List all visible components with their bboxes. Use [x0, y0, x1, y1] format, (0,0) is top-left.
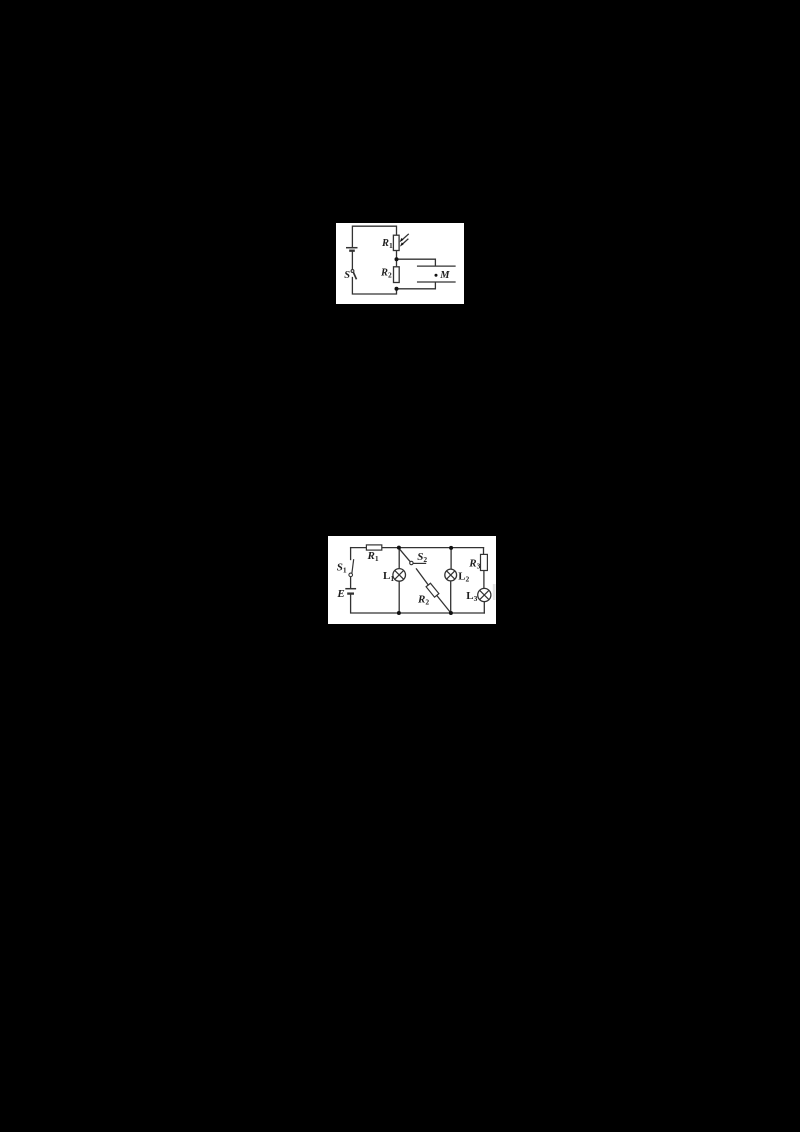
svg-text:L3: L3: [466, 590, 477, 603]
svg-text:R1: R1: [381, 238, 393, 250]
svg-text:R1: R1: [367, 550, 379, 563]
svg-text:S: S: [344, 270, 350, 281]
svg-text:S1: S1: [337, 562, 347, 575]
svg-text:R2: R2: [417, 593, 429, 606]
svg-text:L2: L2: [458, 571, 469, 584]
svg-text:L1: L1: [383, 570, 394, 583]
svg-text:R2: R2: [380, 267, 392, 279]
svg-text:S2: S2: [417, 551, 427, 564]
svg-text:M: M: [439, 270, 450, 281]
svg-text:E: E: [336, 588, 344, 600]
svg-text:R3: R3: [468, 558, 480, 571]
